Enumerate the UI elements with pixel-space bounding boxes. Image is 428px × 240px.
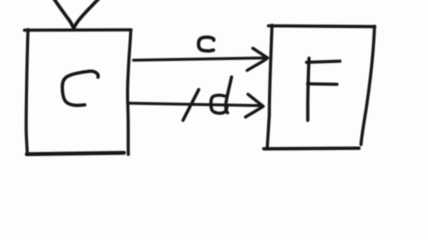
letter F middle bar xyxy=(308,82,338,86)
wire: bottom arrow shaft d xyxy=(128,103,260,105)
incoming arrowhead V into box C xyxy=(52,0,103,28)
wire: top arrow shaft c xyxy=(134,58,265,60)
letter F vertical stroke xyxy=(308,58,309,120)
letter d stem xyxy=(226,77,232,113)
box C left edge xyxy=(26,30,28,155)
box F bottom edge xyxy=(264,147,359,151)
label c xyxy=(199,37,214,51)
box C right edge xyxy=(128,30,131,155)
top arrow head xyxy=(247,48,267,70)
box F right edge xyxy=(361,26,375,144)
letter F top bar xyxy=(307,61,341,62)
letter d bowl xyxy=(211,95,227,113)
bottom arrow head xyxy=(246,94,264,117)
box F top edge xyxy=(269,24,375,28)
letter C inside box C xyxy=(62,71,98,105)
slash of label /d xyxy=(183,90,199,121)
box C top edge xyxy=(25,28,132,32)
box F left edge xyxy=(267,25,272,148)
box C bottom edge xyxy=(27,153,124,154)
